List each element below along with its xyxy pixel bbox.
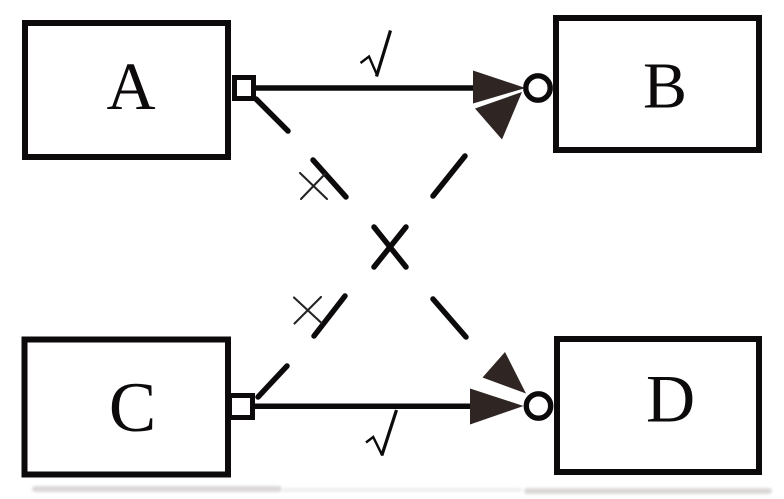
dashed wire C to B, segment 3 (374, 227, 406, 267)
svg-text:D: D (646, 361, 695, 437)
port square on C (230, 396, 253, 418)
dashed wire C to B, segment 4 (433, 156, 465, 196)
scan shadow bottom-right (524, 488, 772, 494)
dashed wire A to D, segment 1 (256, 99, 288, 131)
arrowhead into B from C (475, 92, 522, 140)
svg-text:A: A (106, 48, 155, 124)
scan shadow bottom-left (32, 486, 282, 492)
cross-out mark on wire A-D (300, 173, 327, 199)
input bubble at B (526, 76, 550, 100)
dashed wire A to D, segment 3 (374, 227, 406, 267)
block D (557, 339, 759, 472)
dashed wire A to D, segment 2 (313, 160, 346, 197)
dashed wire A to D, segment 4 (433, 299, 466, 337)
block A (25, 23, 228, 157)
input bubble at D (526, 394, 550, 418)
check mark on wire C-D, short strokes (366, 437, 382, 456)
arrowhead into D from C (470, 389, 524, 425)
port square on A (235, 78, 254, 99)
scan shadow bottom-middle (282, 488, 522, 492)
wire A to B (255, 85, 485, 91)
block C (25, 340, 229, 475)
svg-text:C: C (109, 369, 156, 447)
check mark on wire C-D, long stroke (382, 410, 397, 456)
cross-out mark on wire C-B (294, 297, 322, 324)
check mark on wire A-B, long stroke (377, 31, 391, 77)
dashed wire C to B, segment 1 (258, 366, 287, 397)
arrowhead into B from A (473, 71, 526, 104)
arrowhead into D from A (483, 352, 527, 394)
block B (556, 18, 759, 150)
wire C to D (253, 404, 485, 410)
svg-text:B: B (643, 50, 687, 123)
dashed wire C to B, segment 2 (314, 296, 345, 336)
check mark on wire A-B, short strokes (361, 57, 378, 77)
